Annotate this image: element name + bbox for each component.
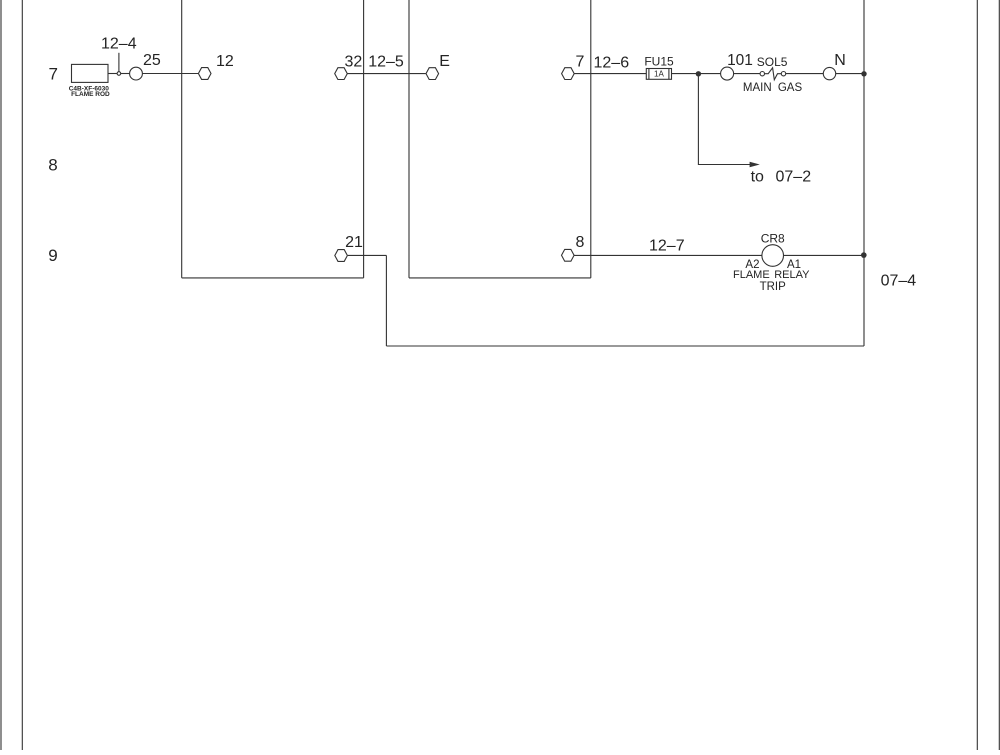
svg-text:32: 32 xyxy=(345,54,363,71)
svg-text:12–6: 12–6 xyxy=(594,55,630,72)
svg-text:FLAME: FLAME xyxy=(733,269,770,281)
svg-text:07–4: 07–4 xyxy=(881,273,917,290)
svg-text:8: 8 xyxy=(576,234,585,251)
svg-text:9: 9 xyxy=(48,246,57,265)
svg-text:12–4: 12–4 xyxy=(101,35,137,52)
svg-text:E: E xyxy=(439,53,450,70)
svg-text:SOL5: SOL5 xyxy=(757,55,788,69)
svg-text:7: 7 xyxy=(48,65,57,84)
svg-text:07–2: 07–2 xyxy=(776,168,812,185)
svg-text:CR8: CR8 xyxy=(761,232,785,246)
svg-text:7: 7 xyxy=(576,54,585,71)
svg-text:12: 12 xyxy=(216,53,234,70)
svg-text:to: to xyxy=(751,168,764,185)
svg-text:GAS: GAS xyxy=(778,82,803,94)
svg-text:TRIP: TRIP xyxy=(760,281,787,293)
svg-text:101: 101 xyxy=(727,52,753,69)
svg-text:8: 8 xyxy=(48,156,57,175)
svg-text:12–5: 12–5 xyxy=(368,54,404,71)
svg-text:21: 21 xyxy=(345,234,363,251)
svg-text:MAIN: MAIN xyxy=(743,82,772,94)
svg-text:1A: 1A xyxy=(654,70,664,79)
svg-text:N: N xyxy=(834,52,846,69)
svg-text:FLAME ROD: FLAME ROD xyxy=(71,91,110,98)
svg-text:RELAY: RELAY xyxy=(774,269,810,281)
svg-text:FU15: FU15 xyxy=(644,54,674,68)
svg-text:25: 25 xyxy=(143,52,161,69)
svg-text:12–7: 12–7 xyxy=(649,238,685,255)
